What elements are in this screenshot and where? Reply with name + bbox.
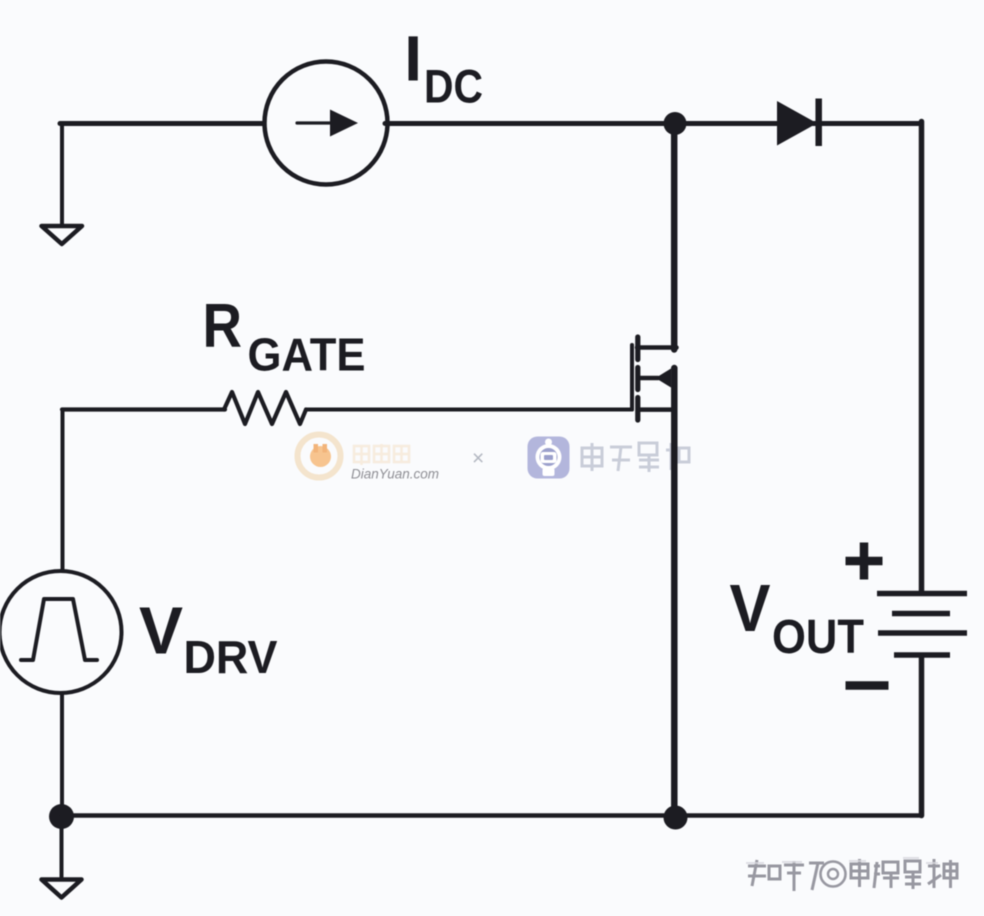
wire: gate lead from resistor to Q1 gate <box>306 408 632 412</box>
svg-text:GATE: GATE <box>248 329 366 381</box>
watermark: DianYuan logo <box>298 435 341 478</box>
wire: top rail right segment <box>385 121 922 126</box>
resistor R_GATE <box>224 392 306 424</box>
watermark: DianZi XingQiu CJK text <box>582 443 689 472</box>
battery V_OUT <box>877 594 967 656</box>
transistor Q1 (N-MOSFET) <box>632 337 677 420</box>
svg-text:DRV: DRV <box>184 631 278 683</box>
svg-text:R: R <box>203 292 243 361</box>
watermark: zhihu attribution text <box>748 859 957 891</box>
wire: top rail left segment <box>60 121 267 126</box>
label I_DC <box>404 22 483 112</box>
ground GND2 (bottom-left) <box>42 880 82 898</box>
label V_OUT <box>730 571 865 664</box>
wire: battery negative to bottom rail <box>919 656 925 816</box>
svg-text:V: V <box>730 571 771 646</box>
wire: right vertical from top corner to battery + <box>919 122 925 594</box>
svg-text:DC: DC <box>424 60 483 113</box>
wire: MOSFET source vertical <box>671 368 678 816</box>
node: bottom-left junction <box>49 804 74 829</box>
current source I1 <box>265 62 388 185</box>
wire: MOSFET drain vertical <box>671 124 678 350</box>
source V_DRV (pulse source) <box>0 571 122 693</box>
diode D1 <box>777 99 819 147</box>
node: drain junction (top) <box>664 112 687 135</box>
watermark: zhihu attribution highlight <box>746 858 938 863</box>
svg-text:OUT: OUT <box>772 611 864 664</box>
node: bottom source junction <box>664 806 688 830</box>
watermark: DianZi XingQiu logo <box>528 437 570 479</box>
label V_DRV <box>139 594 278 684</box>
label R_GATE <box>203 292 366 381</box>
label: battery minus sign <box>846 681 889 690</box>
wire: bottom rail <box>62 813 922 818</box>
wire: bottom-left ground stub <box>60 817 64 877</box>
wire: left vertical to V_DRV <box>61 410 65 573</box>
ground GND1 (top-left) <box>42 226 83 244</box>
svg-text:I: I <box>404 22 422 94</box>
wire: top-left vertical drop to ground <box>60 124 64 227</box>
svg-text:V: V <box>139 594 183 669</box>
svg-text:×: × <box>472 447 484 470</box>
label: battery plus sign <box>846 543 883 580</box>
watermark: DianYuan CJK text <box>354 444 409 465</box>
wire: V_DRV to bottom rail <box>60 693 64 816</box>
wire: left lead to resistor <box>62 407 225 411</box>
svg-text:DianYuan.com: DianYuan.com <box>351 467 439 482</box>
